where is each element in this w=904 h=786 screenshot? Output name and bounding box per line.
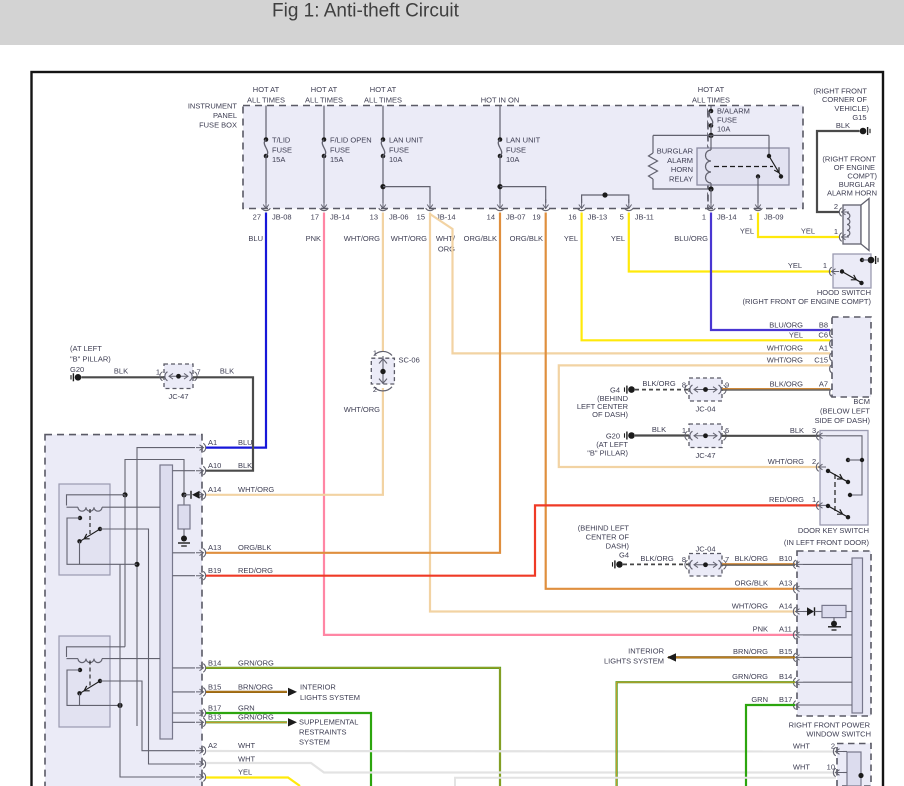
svg-text:B17: B17 [208, 703, 221, 712]
svg-text:ALL TIMES: ALL TIMES [364, 96, 402, 105]
svg-text:BLU/ORG: BLU/ORG [674, 234, 708, 243]
svg-text:FUSE: FUSE [272, 146, 292, 155]
relay 2 box [59, 636, 110, 727]
svg-text:ALL TIMES: ALL TIMES [692, 96, 730, 105]
relay 2 arm [81, 681, 100, 693]
wire LAN UNIT feed 2 [499, 106, 501, 140]
wire BLU JB-08 to A1 [206, 213, 266, 448]
wire relay top bus [653, 134, 769, 136]
wire resistor to node2 [653, 179, 709, 189]
door key arm 2 [826, 469, 830, 473]
BCM pin C15 [830, 364, 833, 373]
relay 1 mech link [89, 509, 91, 535]
svg-text:A2: A2 [208, 741, 217, 750]
svg-text:15A: 15A [330, 155, 343, 164]
door key pin 3 [819, 433, 827, 439]
svg-text:(RIGHT FRONT: (RIGHT FRONT [822, 154, 876, 163]
svg-text:BLU: BLU [248, 234, 263, 243]
connector pin 19 JB [543, 199, 549, 209]
splice JC-47 (left) [164, 364, 193, 389]
svg-text:A7: A7 [819, 380, 828, 389]
svg-text:SUPPLEMENTAL: SUPPLEMENTAL [299, 718, 358, 727]
relay 1 output [100, 529, 195, 764]
relay 1 arm stub [79, 541, 81, 564]
wire ORG/BLK JB-07 to A13 [206, 213, 500, 553]
svg-text:15: 15 [417, 213, 425, 222]
svg-text:ORG/BLK: ORG/BLK [238, 543, 271, 552]
svg-text:YEL: YEL [564, 234, 578, 243]
svg-text:BLK: BLK [790, 426, 804, 435]
wire BLK JC-47 to A10 [193, 377, 253, 470]
svg-text:JC-04: JC-04 [695, 545, 715, 554]
wire B17 internal [173, 712, 196, 714]
relay 2 output [100, 681, 195, 751]
window switch bus bar [852, 558, 863, 713]
svg-text:JB-08: JB-08 [272, 213, 292, 222]
wire WHT A2 to connector pin 2 [206, 750, 838, 753]
wire WHT/ORG JB-14 to window A14 [430, 213, 795, 612]
bottom right connector bus [847, 752, 861, 786]
bracket wire JB-13/JB-11 [582, 195, 629, 203]
svg-text:G4: G4 [619, 551, 629, 560]
svg-text:PNK: PNK [753, 625, 768, 634]
wire F/LID fuse to pin 17 [323, 156, 325, 203]
svg-text:LAN UNIT: LAN UNIT [506, 136, 541, 145]
svg-text:BLK: BLK [836, 121, 850, 130]
connector pin 1 JB-14 [708, 199, 714, 209]
relay switch contact to JB-09 [756, 174, 760, 178]
svg-text:BLK: BLK [220, 367, 234, 376]
svg-text:BCM: BCM [853, 397, 870, 406]
door key mech link [834, 474, 836, 513]
svg-text:B10: B10 [779, 554, 792, 563]
svg-text:7: 7 [725, 555, 729, 564]
wire WHT cut off at page bottom [455, 778, 836, 786]
svg-text:FUSE: FUSE [717, 116, 737, 125]
svg-text:DASH): DASH) [606, 542, 630, 551]
svg-text:FUSE: FUSE [330, 146, 350, 155]
relay 1 box [59, 484, 110, 575]
relay switch arm [769, 156, 781, 176]
burglar alarm horn symbol [843, 205, 861, 244]
splice SC-06 box [371, 358, 394, 384]
svg-text:RED/ORG: RED/ORG [769, 495, 804, 504]
wire A14 upper link [125, 460, 184, 495]
wire RED/ORG B19 to door key 1 [206, 505, 819, 575]
svg-text:WHT/ORG: WHT/ORG [767, 356, 803, 365]
hood switch contact [840, 269, 844, 273]
fuse T/LID 15A [264, 137, 269, 142]
hood switch upper contact [860, 258, 864, 262]
left module pin B14 [196, 665, 204, 671]
wire GRN B17 down (right) [746, 705, 795, 786]
arrow interior lights (left) [288, 688, 297, 696]
BCM pin B8 [830, 329, 833, 338]
relay 2 mech link [89, 661, 91, 688]
relay mech link (dashed) [714, 166, 773, 168]
hood switch arm [842, 272, 862, 283]
window A14 diode [803, 611, 807, 613]
wire A1 internal [137, 448, 195, 726]
wire GRN/ORG B14 stripe [206, 668, 500, 786]
svg-text:Fig 1: Anti-theft Circuit: Fig 1: Anti-theft Circuit [272, 1, 460, 22]
svg-text:A13: A13 [208, 543, 221, 552]
resistor below A14 [183, 495, 185, 505]
fuse F/LID OPEN 15A [322, 137, 327, 142]
wire PNK JB-14 to A11 [324, 213, 795, 635]
svg-text:17: 17 [311, 213, 319, 222]
left module pin A14 [196, 492, 204, 498]
svg-text:B14: B14 [779, 672, 792, 681]
relay coil (burglar alarm horn relay) [710, 135, 712, 150]
splice JC-04 lower [689, 554, 722, 577]
connector pin 15 JB-14 [427, 199, 433, 209]
svg-text:BLU/ORG: BLU/ORG [769, 320, 803, 329]
wire A10 internal [173, 470, 196, 472]
svg-text:WHT/ORG: WHT/ORG [391, 234, 427, 243]
burglar alarm horn relay box [697, 148, 789, 185]
wire GRN/ORG B14 down (right) [617, 682, 795, 786]
svg-text:19: 19 [532, 213, 540, 222]
relay 1 arm [81, 529, 100, 541]
svg-text:SC-06: SC-06 [399, 356, 420, 365]
svg-text:B14: B14 [208, 658, 221, 667]
window switch pin A11 [796, 632, 804, 638]
left module pin B17 [196, 710, 204, 716]
svg-text:ALARM HORN: ALARM HORN [827, 188, 877, 197]
svg-text:YEL: YEL [789, 331, 803, 340]
svg-text:(BEHIND LEFT: (BEHIND LEFT [578, 523, 630, 532]
svg-text:F/LID OPEN: F/LID OPEN [330, 136, 372, 145]
wire BLK G20 to JC-47 [82, 376, 166, 378]
left module pin (lower YEL) [196, 774, 204, 780]
svg-text:1: 1 [823, 261, 827, 270]
svg-text:LAN UNIT: LAN UNIT [389, 136, 424, 145]
svg-text:RIGHT FRONT POWER: RIGHT FRONT POWER [789, 721, 871, 730]
relay 1 top contact line [67, 495, 126, 506]
svg-text:HOT AT: HOT AT [698, 85, 725, 94]
wire T/LID fuse to pin 27 [265, 156, 267, 203]
horn pin 2 [842, 209, 850, 215]
svg-text:JC-04: JC-04 [695, 405, 715, 414]
svg-text:WHT: WHT [793, 762, 810, 771]
svg-text:WHT/ORG: WHT/ORG [344, 405, 380, 414]
connector pin 27 JB-08 [263, 199, 269, 209]
ground G4 lower [616, 561, 623, 568]
svg-text:A14: A14 [208, 485, 221, 494]
svg-text:ALARM: ALARM [667, 156, 693, 165]
wire GRN B17 down [206, 713, 371, 786]
hood switch pin 1 [832, 269, 840, 275]
wire BLK horn to G15 [817, 131, 860, 212]
svg-text:B15: B15 [208, 682, 221, 691]
horn pin 1 [842, 234, 850, 240]
node on bracket [602, 192, 607, 197]
arrow interior lights (right) [667, 653, 676, 661]
resistor in burglar alarm horn relay [649, 153, 658, 179]
relay 2 pivot [98, 679, 102, 683]
window B10 internal [803, 563, 852, 565]
svg-text:HORN: HORN [671, 165, 693, 174]
BCM pin C6 [830, 339, 833, 348]
svg-text:RELAY: RELAY [669, 175, 693, 184]
window B14 internal [803, 681, 852, 683]
splice JC-04 upper [689, 378, 722, 401]
wire YEL JB-09 to horn 1 [758, 213, 839, 238]
wire YEL lower [206, 778, 300, 786]
svg-text:JB-13: JB-13 [588, 213, 608, 222]
node A14 [181, 492, 186, 497]
svg-text:VEHICLE): VEHICLE) [834, 104, 869, 113]
svg-text:JB-09: JB-09 [764, 213, 784, 222]
svg-text:"B" PILLAR): "B" PILLAR) [70, 355, 111, 364]
svg-text:SIDE OF DASH): SIDE OF DASH) [815, 416, 871, 425]
window A14 ground [833, 618, 835, 621]
svg-text:A10: A10 [208, 461, 221, 470]
svg-text:GRN: GRN [238, 703, 255, 712]
svg-text:ALL TIMES: ALL TIMES [247, 96, 285, 105]
wire F/LID feed [323, 106, 325, 140]
svg-text:(AT LEFT: (AT LEFT [70, 344, 102, 353]
wire BRN/ORG B15 to arrow [206, 691, 287, 693]
svg-text:B19: B19 [208, 566, 221, 575]
svg-text:7: 7 [197, 368, 201, 377]
wire LAN UNIT feed 1 [382, 106, 384, 140]
svg-text:(RIGHT FRONT: (RIGHT FRONT [813, 87, 867, 96]
svg-text:PNK: PNK [306, 234, 321, 243]
svg-text:A11: A11 [779, 625, 792, 634]
svg-text:ORG/BLK: ORG/BLK [735, 579, 768, 588]
svg-text:WHT/ORG: WHT/ORG [768, 457, 804, 466]
door key pin 1 [819, 503, 827, 509]
BCM pin A1 [830, 352, 833, 361]
bottom right internal wires [843, 751, 847, 753]
left module pin A2 [196, 748, 204, 754]
svg-text:HOT AT: HOT AT [370, 85, 397, 94]
wire WHT/ORG JB-06 to SC-06 [382, 213, 384, 353]
svg-text:A1: A1 [819, 344, 828, 353]
burglar alarm relay section (dashed) [708, 106, 803, 209]
door key switch box [820, 431, 868, 526]
window B15 internal [803, 656, 852, 658]
svg-text:1: 1 [373, 349, 377, 358]
svg-text:8: 8 [682, 380, 686, 389]
wire LAN fuse1 to junction [382, 156, 384, 203]
svg-text:T/LID: T/LID [272, 136, 291, 145]
wire WHT/ORG BCM C15 to door key 2 [559, 365, 830, 467]
svg-text:2: 2 [812, 457, 816, 466]
relay 2 coil [78, 659, 102, 663]
relay 1 stationary contact [78, 516, 82, 520]
window switch pin B14 [796, 679, 804, 685]
svg-text:BLK: BLK [114, 367, 128, 376]
left module pin A10 [196, 468, 204, 474]
svg-text:PANEL: PANEL [213, 111, 237, 120]
svg-text:WHT: WHT [793, 741, 810, 750]
left module pin A13 [196, 550, 204, 556]
wire B19 internal [173, 575, 196, 577]
wire branch to pin 15 [383, 187, 430, 203]
svg-text:8: 8 [682, 555, 686, 564]
wire GRN/ORG B13 to arrow [206, 721, 287, 723]
ground G15 [860, 128, 867, 135]
svg-text:2: 2 [831, 741, 835, 750]
svg-text:BLK: BLK [238, 461, 252, 470]
svg-text:LIGHTS SYSTEM: LIGHTS SYSTEM [300, 693, 360, 702]
relay 1 pivot [98, 527, 102, 531]
connector pin 5 JB-11 [626, 199, 632, 209]
svg-text:RED/ORG: RED/ORG [238, 566, 273, 575]
svg-text:A13: A13 [779, 579, 792, 588]
svg-text:C6: C6 [818, 331, 828, 340]
splice JC-47 mid [689, 424, 722, 448]
BCM pin A7 [830, 388, 833, 397]
svg-text:ORG/BLK: ORG/BLK [464, 234, 497, 243]
wire BRN/ORG B15 to arrow (right) [668, 656, 795, 658]
svg-text:10A: 10A [506, 155, 519, 164]
connector pin 16 JB-13 [579, 199, 585, 209]
svg-text:13: 13 [370, 213, 378, 222]
svg-text:(RIGHT FRONT OF ENGINE COMPT): (RIGHT FRONT OF ENGINE COMPT) [743, 297, 872, 306]
wire WHT/ORG SC-06 to A14 [206, 388, 383, 495]
window A11 internal [803, 634, 852, 636]
svg-text:3: 3 [812, 426, 816, 435]
svg-text:DOOR KEY SWITCH: DOOR KEY SWITCH [798, 526, 869, 535]
svg-text:(IN LEFT FRONT DOOR): (IN LEFT FRONT DOOR) [784, 538, 870, 547]
svg-text:10: 10 [827, 762, 835, 771]
svg-text:1: 1 [834, 227, 838, 236]
left module pin B13 [196, 720, 204, 726]
svg-text:YEL: YEL [788, 261, 802, 270]
wire B14 internal [173, 667, 196, 669]
window A14 resistor [822, 605, 846, 617]
instrument panel fuse box (dashed) [243, 106, 708, 209]
svg-text:BLU: BLU [238, 438, 253, 447]
internal junction bus bar [160, 465, 173, 739]
wire x125 net [122, 492, 127, 497]
left module box (dashed) [45, 435, 202, 786]
wire BLK JC-47 to door key 3 [722, 435, 819, 437]
wire GRN/ORG B14 down [206, 668, 500, 786]
page header band [0, 0, 904, 45]
window switch box (dashed) [797, 551, 871, 716]
connector pin 13 JB-06 [380, 199, 386, 209]
arrow supplemental restraints [288, 718, 297, 726]
svg-text:A14: A14 [779, 601, 792, 610]
window switch pin A14 [796, 609, 804, 615]
svg-text:JB-14: JB-14 [717, 213, 737, 222]
svg-text:YEL: YEL [238, 767, 252, 776]
connector pin 1 JB-09 [755, 199, 761, 209]
relay coil bottom node [710, 183, 712, 189]
svg-text:YEL: YEL [611, 234, 625, 243]
window switch pin A13 [796, 586, 804, 592]
svg-text:BLK/ORG: BLK/ORG [770, 380, 804, 389]
svg-text:10A: 10A [389, 155, 402, 164]
fuse B/ALARM 10A [709, 109, 714, 114]
svg-text:JC-47: JC-47 [695, 451, 715, 460]
svg-text:HOT AT: HOT AT [253, 85, 280, 94]
window switch pin B15 [796, 655, 804, 661]
wire YEL JB-13 to BCM C6 [582, 213, 830, 341]
svg-text:FUSE: FUSE [389, 146, 409, 155]
svg-text:GRN: GRN [751, 695, 768, 704]
svg-text:B8: B8 [819, 320, 828, 329]
svg-text:B15: B15 [779, 647, 792, 656]
wire B13 internal [173, 721, 196, 723]
svg-text:16: 16 [568, 213, 576, 222]
wire BLU/ORG JB-14 to BCM B8 [711, 213, 830, 331]
ground G20 left [75, 374, 82, 381]
left module pin B15 [196, 689, 204, 695]
window A13 internal [803, 588, 852, 590]
window switch pin B10 [796, 562, 804, 568]
bottom right connector box (dashed) [837, 744, 871, 786]
relay 1 coil [78, 507, 102, 511]
svg-text:A1: A1 [208, 438, 217, 447]
left module pin A1 [196, 445, 204, 451]
ground inside left module [181, 536, 187, 542]
hood switch box [833, 254, 871, 288]
wire BLK G20 to JC-47 mid [635, 434, 689, 436]
svg-text:JB-14: JB-14 [330, 213, 350, 222]
svg-text:CENTER OF: CENTER OF [586, 533, 630, 542]
relay 2 stationary contact [78, 668, 82, 672]
svg-text:GRN/ORG: GRN/ORG [238, 658, 274, 667]
fuse LAN UNIT 10A (1) [381, 137, 386, 142]
door key contact pair [846, 458, 850, 462]
svg-text:ALL TIMES: ALL TIMES [305, 96, 343, 105]
relay 2 arm stub [79, 693, 81, 705]
svg-text:WHT/ORG: WHT/ORG [732, 601, 768, 610]
svg-text:INTERIOR: INTERIOR [300, 683, 336, 692]
bottom right pin 10 [836, 770, 844, 776]
svg-text:BLK/ORG: BLK/ORG [640, 554, 674, 563]
wire resistor to ground [183, 529, 185, 536]
connector pin 17 JB-14 [321, 199, 327, 209]
wire BLK/ORG JC-04 to window B10 [722, 563, 795, 565]
svg-text:1: 1 [682, 426, 686, 435]
svg-text:WINDOW SWITCH: WINDOW SWITCH [806, 730, 871, 739]
svg-text:G15: G15 [852, 113, 866, 122]
wire WHT lower to connector pin 10 [206, 763, 838, 773]
wire B/ALARM feed [710, 106, 712, 112]
svg-text:JB-11: JB-11 [635, 213, 654, 222]
svg-text:SYSTEM: SYSTEM [299, 738, 330, 747]
svg-text:YEL: YEL [801, 227, 815, 236]
svg-text:5: 5 [620, 213, 624, 222]
wire x125 to relay 2 [124, 495, 126, 647]
svg-text:BRN/ORG: BRN/ORG [238, 682, 273, 691]
wire x120 net [117, 703, 122, 708]
wire T/LID feed [265, 106, 267, 140]
svg-text:HOT AT: HOT AT [311, 85, 338, 94]
svg-text:FUSE: FUSE [506, 146, 526, 155]
connector pin 14 JB-07 [497, 199, 503, 209]
svg-text:"B" PILLAR): "B" PILLAR) [587, 448, 628, 457]
wire BLK/ORG JC-04 to BCM A7 [722, 388, 830, 390]
svg-text:JB-07: JB-07 [506, 213, 526, 222]
BCM box (dashed) [832, 317, 871, 397]
left module pin B19 [196, 573, 204, 579]
wire branch to pin 19 [500, 187, 546, 203]
svg-text:WHT/ORG: WHT/ORG [767, 344, 803, 353]
svg-text:WHT: WHT [238, 741, 255, 750]
svg-text:WHT/ORG: WHT/ORG [238, 485, 274, 494]
svg-text:(BELOW LEFT: (BELOW LEFT [820, 407, 870, 416]
wire fuse to node [710, 126, 712, 136]
svg-text:B/ALARM: B/ALARM [717, 107, 750, 116]
